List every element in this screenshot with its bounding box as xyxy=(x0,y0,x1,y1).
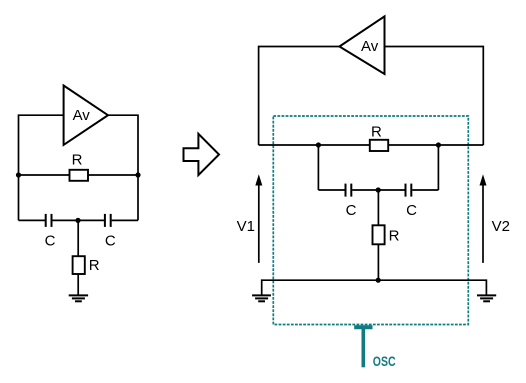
wire left-circuit output rail (amp output to right vertical) xyxy=(108,115,138,220)
capacitor C (left circuit, left) xyxy=(45,214,56,249)
svg-text:R: R xyxy=(371,123,382,140)
capacitor C (left circuit, right) xyxy=(105,214,116,249)
node V1 arrow (input voltage indicator) xyxy=(237,174,263,263)
svg-text:Av: Av xyxy=(361,38,379,55)
wire R to ground (left circuit) xyxy=(77,274,79,295)
node right junction on mid rail xyxy=(436,142,441,147)
node V2 arrow (output voltage indicator) xyxy=(480,174,510,263)
wire right drop to cap row (right circuit) xyxy=(437,145,439,190)
node bottom rail center junction xyxy=(376,278,381,283)
op-amp Av (left circuit) xyxy=(64,86,108,145)
wire right-circuit cap row middle segment xyxy=(352,189,404,191)
ground (right circuit, left) xyxy=(252,295,271,301)
svg-text:R: R xyxy=(89,257,100,274)
resistor R (left circuit, vertical to ground) xyxy=(73,256,100,274)
wire right-circuit cap row right segment xyxy=(412,189,438,191)
wire left-circuit cap row right segment xyxy=(112,219,138,221)
wire bottom-left stub to ground xyxy=(261,279,263,295)
svg-text:C: C xyxy=(346,202,357,219)
svg-text:Av: Av xyxy=(73,107,91,124)
block arrow (transform symbol between circuits) xyxy=(184,134,220,175)
node left junction on mid rail xyxy=(316,142,321,147)
svg-text:OSC: OSC xyxy=(373,353,396,369)
wire left-circuit input rail (left vertical + top segment to amp input) xyxy=(19,115,64,220)
svg-text:V1: V1 xyxy=(237,218,255,235)
wire right-circuit cap row left segment xyxy=(318,189,344,191)
resistor R (left circuit, horizontal) xyxy=(70,151,89,180)
svg-text:R: R xyxy=(389,227,400,244)
node junction right rail / R row xyxy=(135,172,140,177)
resistor R (right circuit, horizontal) xyxy=(370,123,388,151)
resistor R (right circuit, vertical) xyxy=(373,225,400,244)
wire left-circuit cap row middle segment xyxy=(52,219,104,221)
svg-text:C: C xyxy=(406,202,417,219)
node junction left rail / R row xyxy=(16,172,21,177)
capacitor C (right circuit, left) xyxy=(346,184,357,219)
wire R down to bottom rail (right circuit) xyxy=(377,244,379,280)
wire left-circuit feedback R row xyxy=(19,174,139,176)
svg-text:V2: V2 xyxy=(492,218,510,235)
capacitor C (right circuit, right) xyxy=(406,184,418,219)
svg-text:C: C xyxy=(105,232,116,249)
svg-text:R: R xyxy=(72,151,83,168)
node center of cap row (left circuit) xyxy=(75,218,80,223)
wire left-circuit cap row left segment xyxy=(19,219,46,221)
dashed selection box (oscillator network) xyxy=(273,116,468,325)
ground (right circuit, right) xyxy=(477,295,496,301)
ground (left circuit) xyxy=(69,295,88,301)
wire right-circuit amp output rail (right edge to right vertical down to mid rail) xyxy=(385,47,484,146)
wire right-circuit mid rail xyxy=(259,144,484,146)
node OSC terminal (teal tap on dashed box) xyxy=(354,327,395,369)
wire bottom ground rail (right circuit) xyxy=(262,279,487,281)
wire right-circuit amp input rail (apex to left vertical down to mid rail) xyxy=(259,47,340,146)
node center of cap row (right circuit) xyxy=(376,187,381,192)
wire center tap down to R (right circuit) xyxy=(377,190,379,225)
svg-text:C: C xyxy=(45,232,56,249)
wire bottom-right stub to ground xyxy=(485,279,487,295)
wire left drop to cap row (right circuit) xyxy=(317,145,319,190)
wire center tap down to R (left circuit) xyxy=(77,220,79,256)
op-amp Av (right circuit, pointing left) xyxy=(339,16,384,74)
